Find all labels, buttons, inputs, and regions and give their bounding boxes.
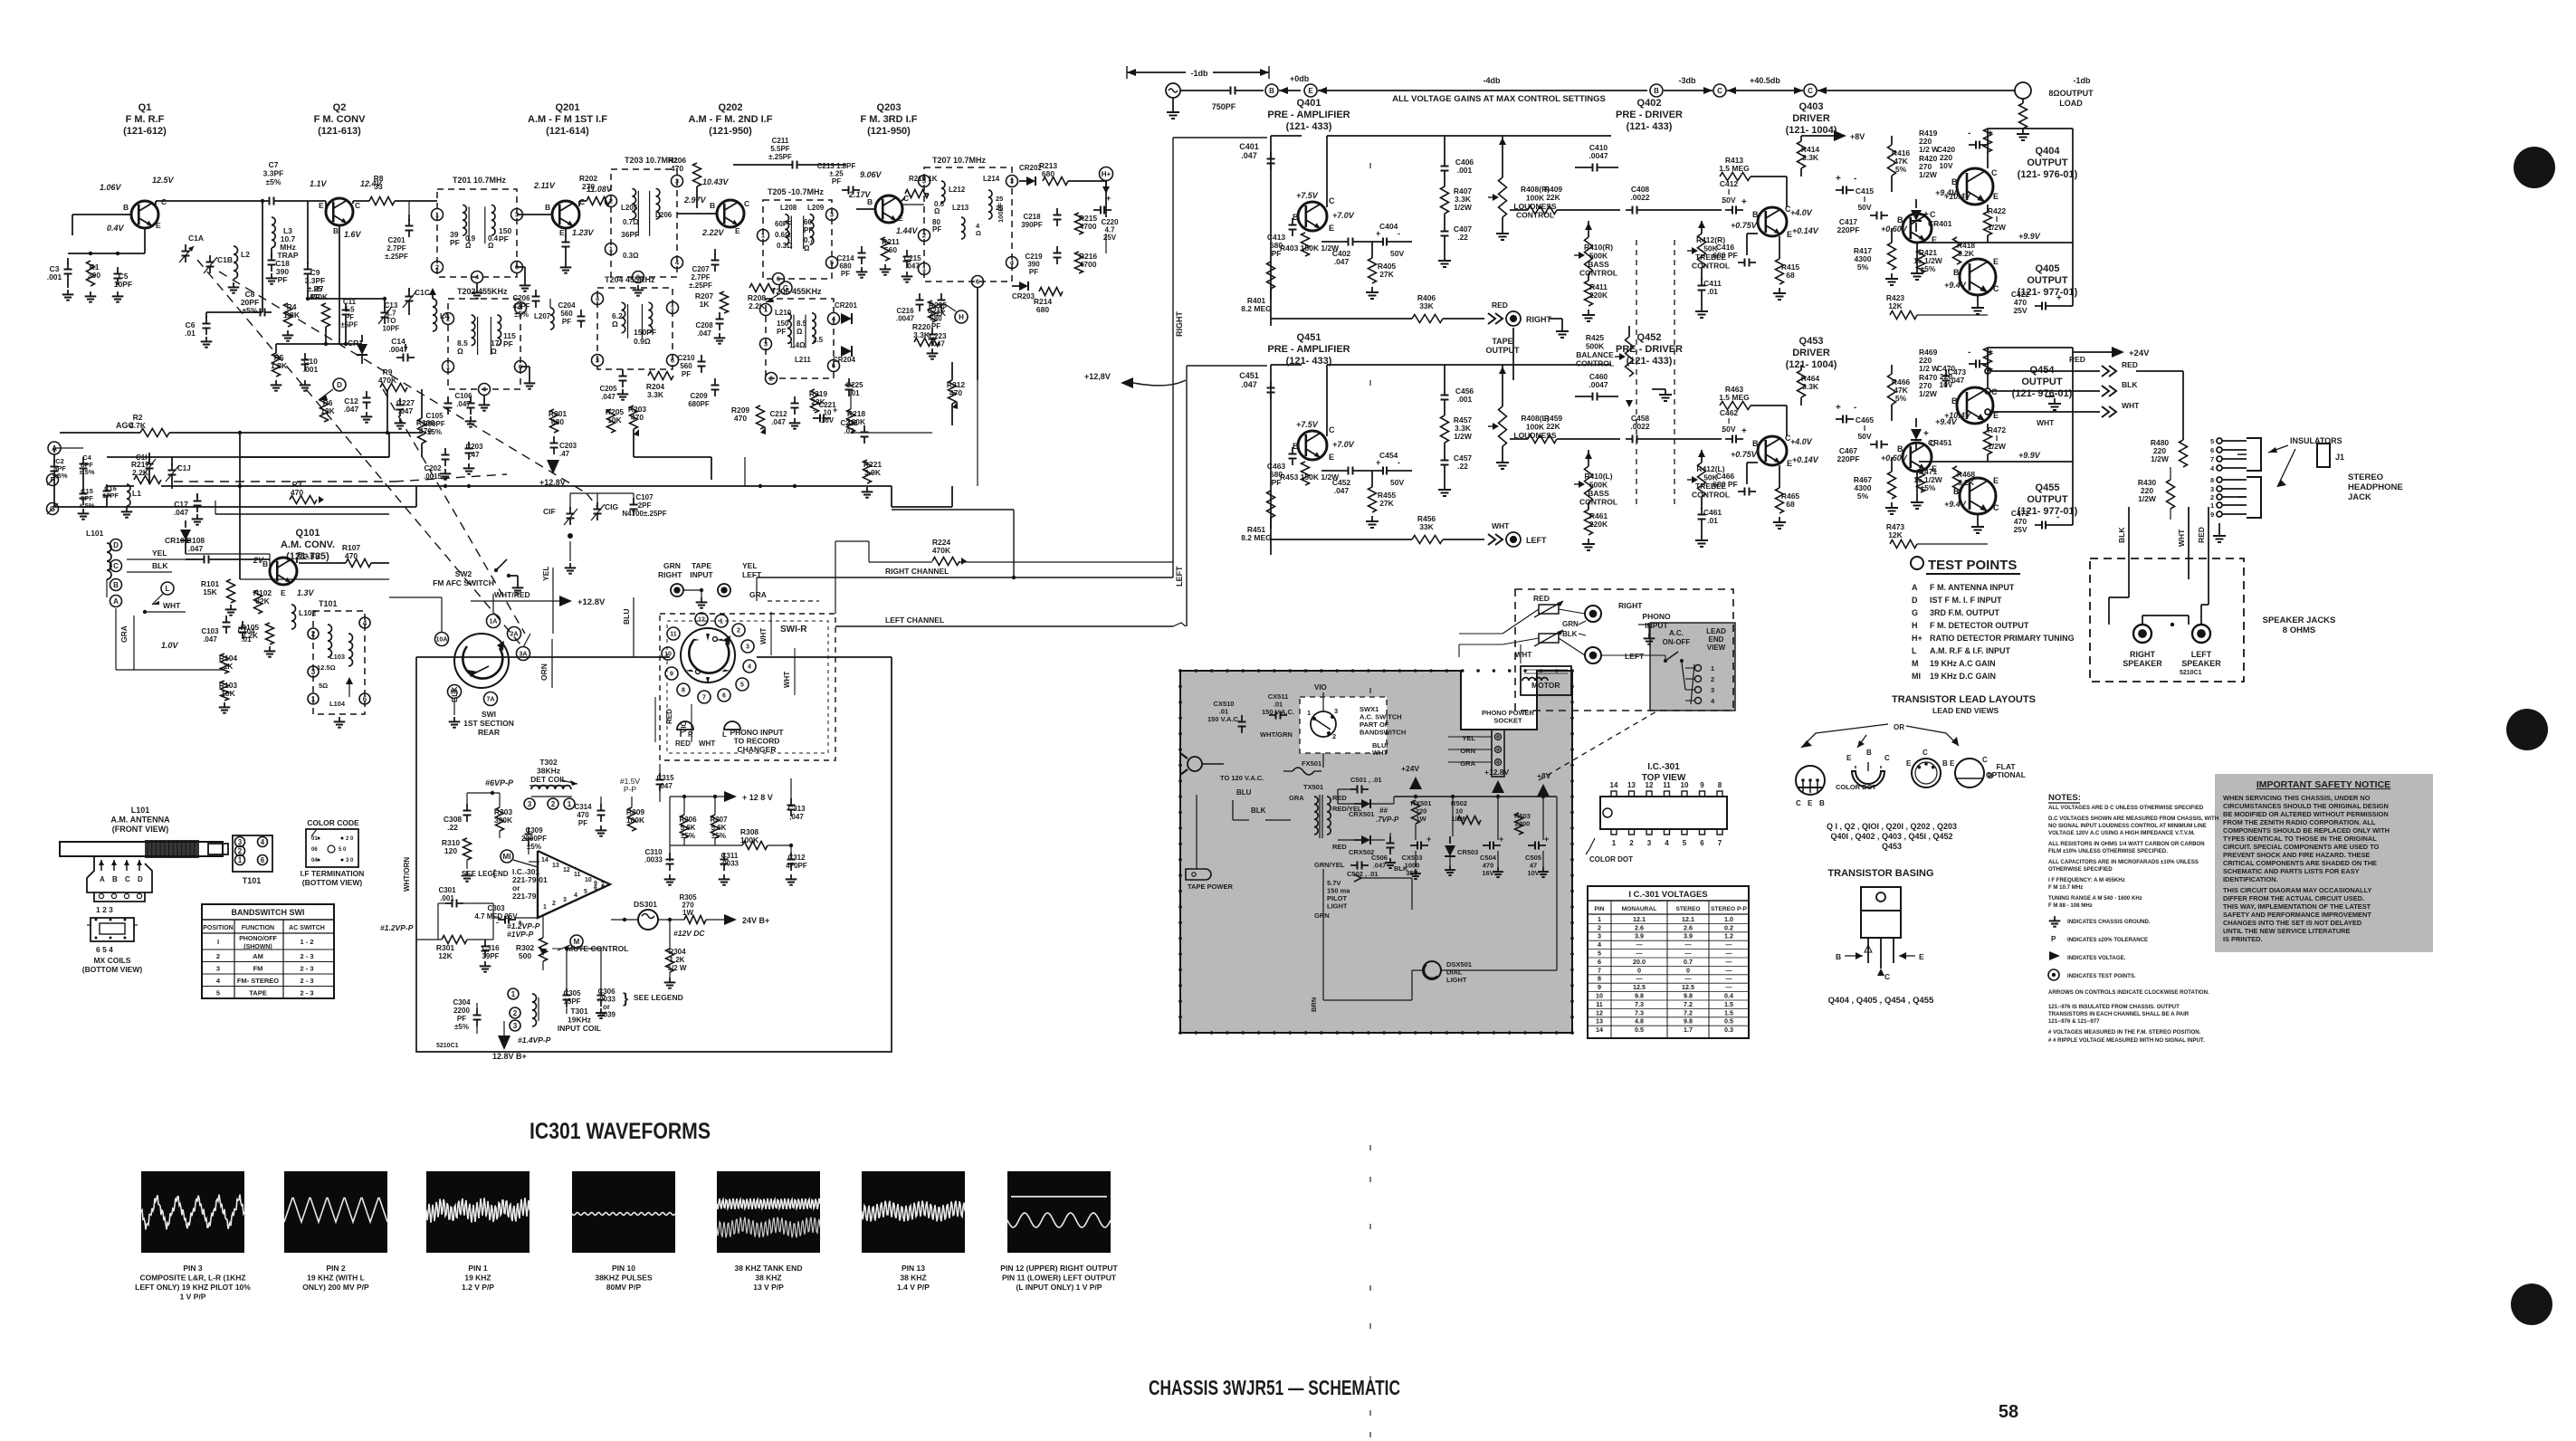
svg-text:-: - [1854,403,1856,413]
capacitor C14 [396,357,404,358]
speaker wires [2128,579,2130,597]
svg-text:B: B [1752,439,1759,448]
svg-text:MX COILS: MX COILS [93,956,130,965]
capacitor C416 [1747,233,1758,234]
svg-text:60: 60 [804,218,812,226]
svg-text:±5%: ±5% [266,177,281,186]
svg-text:.47: .47 [559,450,570,458]
wire C1F down [569,541,571,561]
svg-text:±5%: ±5% [1921,483,1936,492]
svg-text:GRA: GRA [749,590,767,599]
resistor R9 [380,384,407,392]
svg-text:36PF: 36PF [621,230,639,239]
resistor R304 [666,949,674,972]
svg-text:±.5%: ±.5% [79,468,94,476]
wire am bus [115,608,117,670]
svg-text:8.2K: 8.2K [1958,249,1975,258]
svg-text:C: C [1922,749,1928,757]
potentiometer R425 balance control [1628,326,1630,337]
svg-text:1/2W: 1/2W [1919,170,1938,179]
svg-text:WHT: WHT [163,601,181,610]
svg-text:B: B [1819,799,1825,807]
svg-text:220K: 220K [1589,291,1608,300]
waveform photo 3 [426,1171,530,1253]
capacitor C207 [714,253,716,261]
svg-text:5Ω: 5Ω [319,682,328,690]
svg-text:WHEN SERVICING THIS CHASSIS, U: WHEN SERVICING THIS CHASSIS, UNDER NO [2223,794,2371,802]
svg-text:CIG: CIG [605,502,619,511]
svg-text:1.8K: 1.8K [271,361,288,370]
svg-text:-1db: -1db [1191,69,1209,78]
capacitor C215 [906,250,908,257]
transistor basing package drawing [1861,887,1901,911]
svg-text:390PF: 390PF [1021,221,1043,229]
svg-text:58: 58 [1999,1402,2018,1422]
svg-text:FM- STEREO: FM- STEREO [237,977,279,985]
capacitor C9 [307,262,309,270]
svg-text:OUTPUT: OUTPUT [2021,377,2063,387]
svg-text:SOCKET: SOCKET [1493,717,1522,725]
svg-text:-: - [1968,348,1970,358]
wire output to rail [1987,348,1989,387]
inductor L1 [127,484,130,491]
svg-text:2: 2 [2210,493,2214,501]
svg-text:C: C [1796,799,1801,807]
svg-text:6 5 4: 6 5 4 [96,945,113,954]
svg-text:PF: PF [682,370,691,378]
svg-text:2.97V: 2.97V [683,196,707,205]
svg-text:TRANSISTOR BASING: TRANSISTOR BASING [1827,868,1933,879]
svg-text:1K: 1K [700,300,711,309]
svg-text:J1: J1 [2335,453,2344,462]
resistor R219 [811,389,819,413]
tuning gang dashed diagonal 1 [197,260,520,644]
svg-text:T207 10.7MHz: T207 10.7MHz [932,156,987,165]
capacitor C223 [931,328,933,335]
svg-text:A: A [100,875,105,883]
svg-text:0.4: 0.4 [1724,992,1733,1000]
svg-text:7A: 7A [487,697,495,703]
svg-text:##: ## [1379,806,1388,815]
svg-text:.047: .047 [601,393,615,401]
svg-text:C: C [1884,754,1890,762]
svg-text:PF: PF [1029,268,1038,276]
svg-text:±.25PF: ±.25PF [768,153,792,161]
capacitor C456 [1444,365,1445,388]
svg-text:A.M. R.F & I.F. INPUT: A.M. R.F & I.F. INPUT [1930,646,2011,655]
svg-text:+: + [1836,174,1841,184]
svg-text:Q453: Q453 [1882,842,1902,851]
svg-text:10PF: 10PF [114,280,132,289]
svg-text:.22: .22 [447,823,458,832]
svg-text:10K: 10K [607,415,622,425]
svg-text:Ω: Ω [465,242,472,250]
svg-text:12.5V: 12.5V [152,176,175,185]
svg-text:±5PF: ±5PF [340,321,358,329]
svg-text:150 V.A.C.: 150 V.A.C. [1262,708,1294,716]
svg-text:.0022: .0022 [1630,422,1650,431]
resistor R105 [266,623,274,644]
svg-text:C303: C303 [487,904,505,912]
wire input node C401 [1270,136,1272,326]
svg-text:3: 3 [746,644,749,651]
resistor R461 [1588,502,1589,510]
svg-text:D: D [337,381,342,389]
svg-text:SWI-R: SWI-R [780,625,807,635]
svg-text:C1C: C1C [415,288,430,297]
capacitor C415 [1836,189,1843,191]
resistor R309 [628,807,636,831]
db chain line to output load [1818,90,2016,91]
test point C1 [1713,84,1726,97]
gang dashed link bass/treble [1636,240,1637,507]
resistor R214 [1039,288,1063,296]
svg-text:Q1: Q1 [138,102,152,113]
capacitor C502 [1350,864,1358,866]
capacitor C410 [1575,167,1586,168]
svg-text:470K: 470K [310,292,329,301]
svg-text:1/2W: 1/2W [1454,203,1473,212]
svg-text:±.25PF: ±.25PF [689,282,712,290]
svg-text:GRA: GRA [119,625,129,643]
inductor L3 [272,217,275,224]
svg-text:C: C [1808,87,1813,95]
diode CRX501 [1354,803,1361,805]
svg-text:CIRCUMSTANCES SHOULD THE ORIGI: CIRCUMSTANCES SHOULD THE ORIGINAL DESIGN [2223,802,2389,810]
svg-text:+12.8V: +12.8V [577,597,606,607]
svg-text:B: B [1654,87,1659,95]
svg-text:B: B [1953,487,1960,496]
svg-text:RED: RED [675,740,691,748]
waveform photo 1 [141,1171,244,1253]
waveform photo 5 [717,1171,820,1253]
resistor R503 [1515,813,1523,835]
capacitor C473 [1945,369,1947,377]
svg-text:P: P [2051,935,2056,943]
svg-text:+: + [1544,835,1549,844]
svg-text:PIN 2: PIN 2 [326,1264,346,1273]
svg-text:NO SIGNAL INPUT LOUDNESS CONT: NO SIGNAL INPUT LOUDNESS CONTROL AT MINI… [2048,823,2207,829]
capacitor C202 [444,448,446,455]
svg-text:Q452: Q452 [1637,332,1662,343]
phono wires [1559,609,1585,614]
tuning gang dashed diagonal 3 [383,389,525,634]
svg-text:L101: L101 [131,806,150,815]
resistor R211 [882,237,890,261]
capacitor C314 [600,804,602,811]
svg-text:BLU: BLU [1236,788,1252,797]
svg-text:B: B [1953,268,1960,277]
svg-text:POSITION: POSITION [203,925,233,931]
lead layout package 3 [1912,759,1941,787]
svg-text:68: 68 [1786,500,1795,509]
svg-text:IDENTIFICATION.: IDENTIFICATION. [2223,875,2278,883]
svg-text:F M. R.F: F M. R.F [126,114,165,125]
phono slide pot 1 [1539,605,1559,614]
svg-text:C225: C225 [845,381,863,389]
resistor R217 [134,476,161,484]
test point G [779,282,792,294]
waveform photo 4 [572,1171,675,1253]
svg-text:Ω: Ω [804,244,810,253]
svg-text:PRE - DRIVER: PRE - DRIVER [1616,110,1683,120]
svg-text:RIGHT: RIGHT [1526,315,1552,324]
svg-text:3.9: 3.9 [1635,932,1644,940]
svg-text:12.8V B+: 12.8V B+ [492,1052,527,1061]
svg-text:500K: 500K [1589,481,1608,490]
svg-text:E: E [1906,759,1912,768]
svg-text:±5%: ±5% [514,310,529,319]
svg-text:2: 2 [238,847,243,855]
svg-text:470: 470 [419,426,432,435]
svg-text:OPTIONAL: OPTIONAL [1986,770,2026,779]
svg-text:LEAD END VIEWS: LEAD END VIEWS [1932,706,1999,715]
svg-text:5.5PF: 5.5PF [770,145,789,153]
svg-text:F M. CONV: F M. CONV [314,114,366,125]
svg-text:.01: .01 [1707,287,1718,296]
svg-text:6: 6 [261,856,265,864]
svg-text:A: A [1912,583,1918,592]
svg-text:2.2K: 2.2K [930,309,947,318]
svg-text:6: 6 [722,693,726,700]
svg-text:A.C.: A.C. [1669,629,1684,637]
svg-text:E: E [1950,759,1955,768]
resistor R2 [140,429,169,437]
capacitor C420 [1969,144,1976,146]
resistor R456 [1271,539,1412,540]
svg-text:TRANSISTORS IN EACH CHANNEL SH: TRANSISTORS IN EACH CHANNEL SHALL BE A P… [2048,1011,2190,1017]
svg-text:4: 4 [363,619,367,627]
svg-text:BLK: BLK [2117,527,2126,543]
svg-text:C211: C211 [772,137,789,145]
capacitor C106 [470,396,472,404]
resistor R459 [1510,438,1528,440]
capacitor C108 [197,558,205,560]
SWI-R outer dashed box [660,614,835,760]
svg-text:-: - [1968,129,1970,138]
svg-text:(121- 433): (121- 433) [1286,121,1332,132]
svg-text:7: 7 [2210,455,2214,463]
svg-text:.001: .001 [47,272,62,282]
svg-text:GRN: GRN [1562,620,1579,628]
svg-text:C204: C204 [558,301,576,310]
svg-text:25V: 25V [1103,234,1117,242]
capacitor C204 [580,310,582,317]
svg-text:4: 4 [1598,940,1601,949]
svg-text:680 PF: 680 PF [1713,480,1737,489]
svg-text:100K: 100K [1526,423,1545,432]
+12.8V arrow mid [1121,377,1133,388]
svg-text:1.2: 1.2 [1724,932,1733,940]
svg-text:5: 5 [2210,437,2214,445]
svg-text:VOLTAGE 120V A.C USING A HIGH: VOLTAGE 120V A.C USING A HIGH IMPEDANCE … [2048,830,2195,836]
svg-text:(121- 433): (121- 433) [1627,356,1673,367]
capacitor C402 [1341,241,1349,243]
svg-text:SWI: SWI [482,710,496,719]
svg-text:+: + [1426,835,1431,844]
svg-text:F M. 3RD I.F: F M. 3RD I.F [861,114,918,125]
svg-text:12.5Ω: 12.5Ω [317,663,336,672]
svg-text:(121-950): (121-950) [867,126,911,137]
svg-text:CONTROL: CONTROL [1692,262,1730,271]
svg-text:B: B [1752,210,1759,219]
svg-text:5.6K: 5.6K [711,824,727,832]
+12 8V arrow right [724,791,737,802]
tape output ground [1550,318,1562,320]
svg-text:150PF: 150PF [634,328,656,337]
terminal G [47,503,59,515]
svg-text:11: 11 [1663,781,1671,789]
svg-text:+12.8V: +12.8V [1484,768,1510,777]
tuning gang dashed horizontal [174,481,395,482]
svg-text:16V: 16V [1482,869,1493,877]
svg-text:C1J: C1J [177,464,191,472]
svg-text:500K: 500K [1589,252,1608,261]
svg-text:33: 33 [374,182,383,191]
resistor R302 mute [539,938,548,961]
svg-text:4700: 4700 [1080,260,1097,269]
capacitor C315 [659,773,661,780]
svg-text:C222: C222 [840,419,858,427]
+8V arrow [1801,135,1834,137]
svg-text:.22: .22 [1457,462,1468,471]
IF transformer T207 [924,167,1012,282]
tape output jack RIGHT [1506,311,1521,326]
svg-text:10.43V: 10.43V [702,177,730,186]
svg-text:C206: C206 [512,294,530,302]
svg-text:WHT/ORN: WHT/ORN [403,857,411,892]
resistor R224 [932,558,959,566]
svg-text:0.5: 0.5 [1635,1026,1644,1034]
svg-text:1/2W: 1/2W [2138,494,2157,503]
test point H [955,310,968,323]
capacitor C11 [345,303,347,310]
svg-text:680PF: 680PF [688,400,710,408]
svg-text:12K: 12K [1888,530,1903,539]
capacitor C203b [553,436,555,444]
capacitor C217 [940,293,942,301]
svg-text:+: + [1376,458,1380,467]
svg-text:CRITICAL COMPONENTS ARE SHADED: CRITICAL COMPONENTS ARE SHADED ON THE [2223,859,2377,867]
wire bus y505-700 [633,429,634,457]
capacitor C308 [466,804,468,811]
registration mark dot bottom right [2511,1284,2552,1325]
svg-text:1K: 1K [224,662,234,671]
svg-text:470PF: 470PF [786,862,807,870]
svg-text:ALL VOLTAGES ARE D C UNLESS OT: ALL VOLTAGES ARE D C UNLESS OTHERWISE SP… [2048,805,2204,811]
rotary switch SW1 [454,634,509,688]
svg-text:150: 150 [777,320,789,328]
svg-text:270: 270 [582,182,595,191]
svg-text:C: C [297,550,302,559]
svg-text:.0022: .0022 [1630,193,1650,202]
svg-text:8ΩOUTPUT: 8ΩOUTPUT [2048,89,2094,98]
svg-text:H: H [959,313,964,321]
svg-text:+4.0V: +4.0V [1790,208,1813,217]
wire right channel to C401 [1172,138,1174,577]
svg-text:C103: C103 [201,627,219,635]
svg-text:C454: C454 [1379,451,1398,460]
svg-text:SPEAKER: SPEAKER [2123,659,2162,668]
svg-text:ARROWS ON CONTROLS INDICATE CL: ARROWS ON CONTROLS INDICATE CLOCKWISE RO… [2048,989,2209,996]
svg-text:MI: MI [1912,672,1921,681]
resistor R218 [847,409,855,433]
svg-text:Ω: Ω [934,207,940,215]
svg-text:13 V P/P: 13 V P/P [753,1283,784,1292]
capacitor C225 [848,378,850,386]
svg-text:1: 1 [1711,664,1714,673]
ps lower wires [1322,869,1324,1000]
resistor R107 [346,559,371,568]
svg-text:+9.4V: +9.4V [1944,281,1967,290]
svg-text:B: B [710,201,715,210]
resistor R451 [1267,491,1275,518]
svg-text:50V: 50V [1390,478,1404,487]
resistor R221 [863,460,872,483]
capacitor C103 [225,616,227,623]
svg-text:LEFT ONLY) 19 KHZ PILOT 10%: LEFT ONLY) 19 KHZ PILOT 10% [135,1283,251,1292]
svg-text:8: 8 [2210,476,2214,484]
capacitor C422 [2035,305,2042,307]
svg-text:C: C [161,197,167,206]
svg-text:390: 390 [88,271,100,280]
headphone jack pins [2217,438,2222,444]
svg-text:BE MODIFIED OR ALTERED WITHOUT: BE MODIFIED OR ALTERED WITHOUT PERMISSIO… [2223,810,2389,818]
svg-text:E: E [898,214,903,223]
wire left channel to C451 [1186,366,1188,626]
svg-text:5%: 5% [1895,394,1907,403]
svg-text:(121-614): (121-614) [546,126,589,137]
svg-text:2: 2 [552,901,556,907]
svg-text:+8V: +8V [1850,132,1865,141]
capacitor C417 [1870,215,1877,216]
svg-text:16V: 16V [821,416,835,425]
svg-text:C301: C301 [438,886,456,894]
svg-text:+0.75V: +0.75V [1731,221,1758,230]
svg-text:PIN 13: PIN 13 [902,1264,925,1273]
svg-text:(121-613): (121-613) [318,126,361,137]
svg-text:2: 2 [1629,839,1634,847]
svg-text:L214: L214 [983,175,1000,183]
svg-text:15PF: 15PF [563,997,580,1006]
svg-text:BASS: BASS [1588,489,1609,498]
transistor Q201 [552,201,579,228]
resistor R203 [630,406,638,429]
svg-text:R410(R): R410(R) [1584,243,1613,252]
svg-text:GRA: GRA [1460,759,1475,768]
capacitor C454 [1376,470,1383,472]
resistor R8 [369,197,395,205]
svg-text:UNTIL THE NEW SERVICE LITERATU: UNTIL THE NEW SERVICE LITERATURE [2223,927,2350,935]
svg-text:CHANGER: CHANGER [738,745,777,754]
svg-text:+7.0V: +7.0V [1332,440,1355,449]
svg-text:TYPES IDENTICAL TO THOSE IN TH: TYPES IDENTICAL TO THOSE IN THE ORIGINAL [2223,835,2377,843]
svg-text:1: 1 [671,304,674,312]
svg-text:25V: 25V [2013,306,2027,315]
resistor R210 [902,197,905,201]
transistor Q455 [1960,478,1996,514]
svg-text:RED: RED [2122,360,2138,369]
svg-text:(BOTTOM VIEW): (BOTTOM VIEW) [82,965,143,974]
svg-text:3: 3 [513,1022,518,1030]
capacitor C306 [600,988,602,996]
phono jack left [1585,647,1601,663]
svg-text:-: - [2056,512,2059,522]
svg-text:A.M - F M. 2ND I.F: A.M - F M. 2ND I.F [689,114,773,125]
svg-text:Q404 , Q405 , Q454 , Q455: Q404 , Q405 , Q454 , Q455 [1828,996,1934,1006]
svg-text:FM: FM [253,964,263,972]
svg-text:L213: L213 [952,204,969,212]
